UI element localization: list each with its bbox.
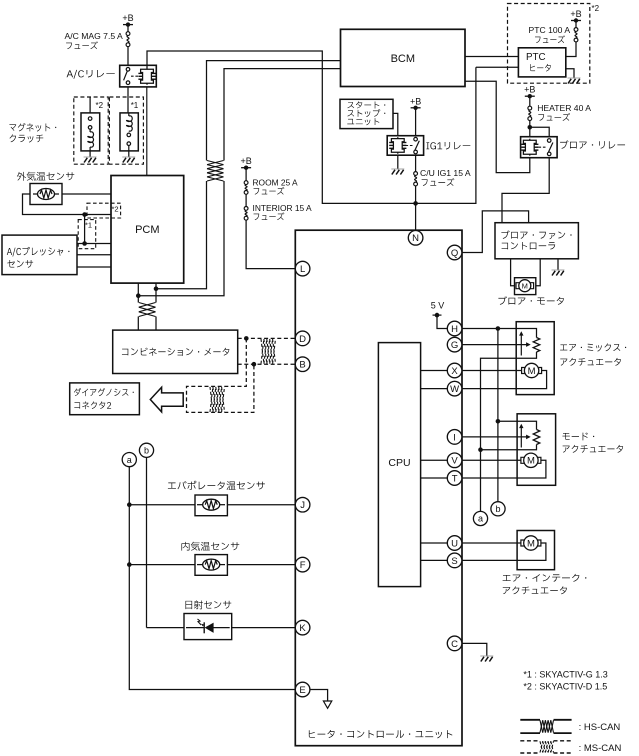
actuator air-intake box bbox=[517, 531, 554, 570]
wire bbox=[462, 459, 521, 461]
ground (signal) bbox=[323, 701, 331, 708]
node junction bbox=[244, 336, 249, 341]
svg-text:*2: *2 bbox=[592, 4, 600, 13]
wire bbox=[227, 504, 295, 506]
svg-text:5 V: 5 V bbox=[431, 301, 445, 311]
unit start-stop box bbox=[340, 99, 393, 128]
relay A/C coil bbox=[141, 69, 154, 83]
label blower relay bbox=[560, 140, 625, 149]
svg-text:PTC: PTC bbox=[526, 52, 546, 63]
label blower motor bbox=[498, 296, 564, 305]
node junction bbox=[136, 293, 141, 298]
label air intake actuator bbox=[503, 574, 587, 582]
wire bbox=[530, 127, 549, 136]
wire bbox=[137, 317, 139, 331]
resistor mode bbox=[533, 430, 540, 445]
ground bbox=[122, 156, 135, 158]
svg-text:F: F bbox=[300, 560, 306, 571]
node E bbox=[295, 682, 310, 697]
node junction bbox=[127, 562, 132, 567]
fuse ROOM 25 A bbox=[244, 181, 248, 185]
wire bbox=[566, 69, 574, 78]
svg-text:M: M bbox=[528, 366, 536, 377]
node X bbox=[447, 363, 462, 378]
svg-text:b: b bbox=[144, 446, 149, 456]
box *1 (dashed) bbox=[78, 220, 96, 249]
svg-text:ROOM 25 A: ROOM 25 A bbox=[253, 178, 299, 188]
node G bbox=[447, 337, 462, 352]
sensor outside-air-temp bbox=[30, 184, 62, 205]
node a bbox=[473, 511, 487, 525]
node N bbox=[408, 231, 423, 246]
wire bbox=[23, 194, 85, 215]
svg-text:INTERIOR 15 A: INTERIOR 15 A bbox=[253, 203, 313, 213]
svg-text:: HS-CAN: : HS-CAN bbox=[579, 722, 621, 733]
node a bbox=[122, 453, 136, 467]
wire bbox=[155, 317, 157, 331]
svg-text:: MS-CAN: : MS-CAN bbox=[579, 743, 622, 754]
legend HS-CAN bbox=[520, 719, 540, 721]
wire bbox=[465, 81, 530, 172]
wire bbox=[497, 329, 499, 502]
wire bbox=[437, 315, 447, 328]
wire bbox=[128, 151, 130, 157]
label A/C pressure sensor bbox=[7, 247, 70, 257]
wire bbox=[397, 155, 399, 169]
wire bbox=[89, 151, 91, 157]
node T bbox=[447, 471, 462, 486]
fuse A/C MAG 7.5 A bbox=[126, 32, 130, 36]
wire bbox=[129, 467, 295, 690]
svg-text:BCM: BCM bbox=[391, 53, 415, 65]
wire bbox=[481, 445, 537, 450]
svg-text:J: J bbox=[300, 500, 305, 511]
node L bbox=[295, 261, 310, 276]
svg-text:V: V bbox=[451, 456, 458, 467]
node I bbox=[447, 430, 462, 445]
wire bbox=[147, 51, 476, 203]
relay blower box bbox=[521, 137, 558, 158]
node U bbox=[447, 536, 462, 551]
node junction bbox=[496, 326, 501, 331]
node Q bbox=[447, 245, 462, 260]
svg-text:C/U IG1 15 A: C/U IG1 15 A bbox=[420, 168, 471, 178]
node junction bbox=[82, 212, 87, 217]
svg-text:T: T bbox=[452, 473, 458, 484]
svg-text:M: M bbox=[522, 281, 528, 290]
node W bbox=[447, 381, 462, 396]
sensor sun (photodiode) bbox=[184, 614, 232, 640]
wire bbox=[310, 690, 328, 702]
motor mode bbox=[524, 453, 538, 467]
heater PTC box bbox=[518, 48, 565, 77]
svg-text:PTC 100 A: PTC 100 A bbox=[529, 25, 571, 35]
meter combination box bbox=[113, 330, 238, 373]
wire bbox=[462, 643, 487, 656]
wire bbox=[155, 289, 157, 303]
svg-text:U: U bbox=[451, 538, 458, 549]
wiper air-mix bbox=[520, 334, 522, 356]
wire bbox=[557, 259, 559, 270]
wire bbox=[462, 328, 516, 330]
node F bbox=[295, 557, 310, 572]
svg-text:b: b bbox=[495, 504, 500, 514]
wire bbox=[127, 47, 129, 66]
svg-text:a: a bbox=[127, 455, 132, 465]
relay A/C switch bbox=[126, 68, 130, 72]
wire bbox=[529, 96, 531, 106]
wire bbox=[462, 344, 527, 346]
wire bbox=[77, 266, 111, 268]
svg-text:+B: +B bbox=[570, 9, 581, 19]
svg-text:+B: +B bbox=[524, 85, 535, 95]
relay IG1 box bbox=[387, 136, 423, 156]
ground bbox=[480, 655, 493, 657]
relay blower switch bbox=[547, 139, 551, 143]
wire bbox=[421, 388, 448, 390]
wire bbox=[156, 181, 207, 289]
wire (dashed) bbox=[187, 338, 254, 412]
node H bbox=[447, 321, 462, 336]
wire bbox=[415, 186, 417, 230]
node junction bbox=[252, 362, 257, 367]
wire bbox=[536, 259, 540, 286]
wire bbox=[146, 457, 148, 627]
relay IG1 switch bbox=[414, 137, 418, 141]
wire bbox=[529, 121, 531, 137]
motor blower bbox=[515, 278, 536, 295]
relay IG1 coil bbox=[391, 139, 404, 153]
arrow diagnosis bbox=[150, 387, 183, 412]
node junction bbox=[82, 241, 87, 246]
wire bbox=[129, 504, 195, 506]
wire bbox=[462, 543, 546, 560]
sensor evaporator-temp bbox=[195, 495, 227, 516]
svg-text:E: E bbox=[299, 685, 305, 696]
node C bbox=[447, 636, 462, 651]
node junction bbox=[413, 201, 418, 206]
wire bbox=[84, 215, 86, 244]
svg-text:+B: +B bbox=[410, 96, 421, 106]
wire bbox=[77, 254, 111, 256]
connector diagnosis box bbox=[70, 383, 140, 415]
wire bbox=[465, 56, 518, 58]
svg-text:H: H bbox=[451, 324, 458, 335]
svg-text:A/C MAG 7.5 A: A/C MAG 7.5 A bbox=[65, 31, 124, 41]
svg-text:*2: *2 bbox=[96, 101, 104, 110]
node b bbox=[491, 502, 505, 516]
label outside air temp sensor bbox=[17, 172, 74, 181]
wire bbox=[85, 214, 111, 216]
resistor air-mix bbox=[533, 338, 540, 353]
wire bbox=[462, 460, 546, 478]
wire bbox=[421, 459, 448, 461]
wire bbox=[227, 564, 295, 566]
svg-text:M: M bbox=[527, 538, 535, 549]
wire bbox=[415, 108, 417, 136]
box *2 (dashed) bbox=[87, 203, 121, 218]
wire bbox=[155, 283, 157, 289]
wire bbox=[516, 329, 536, 338]
svg-text:S: S bbox=[451, 556, 457, 567]
wire (dashed) bbox=[238, 337, 296, 339]
wire bbox=[245, 194, 247, 206]
box PTC *2 (dashed) bbox=[508, 4, 590, 84]
label IG1 relay bbox=[426, 142, 470, 150]
wire bbox=[393, 113, 398, 135]
wire bbox=[415, 155, 417, 171]
label A/C relay bbox=[67, 70, 115, 79]
svg-text:Q: Q bbox=[451, 248, 458, 259]
node junction bbox=[528, 125, 533, 130]
wire bbox=[245, 168, 247, 181]
svg-text:D: D bbox=[299, 334, 306, 345]
wiper mode bbox=[520, 427, 522, 448]
clutch coil *1 bbox=[120, 113, 138, 151]
node V bbox=[447, 453, 462, 468]
label heater control unit bbox=[309, 730, 453, 738]
ground bbox=[391, 168, 404, 170]
twisted pair MS-CAN (dashed) bbox=[210, 387, 213, 412]
label evaporator temp sensor bbox=[168, 481, 265, 490]
wire bbox=[138, 181, 224, 296]
clutch coil *2 bbox=[81, 113, 100, 151]
twisted pair MS-CAN (dashed) bbox=[261, 339, 264, 364]
svg-text:*2: *2 bbox=[112, 205, 119, 214]
wire bbox=[511, 259, 515, 286]
twisted pair HS-CAN bbox=[207, 161, 224, 165]
node B bbox=[295, 357, 310, 372]
wire bbox=[462, 542, 521, 544]
node junction bbox=[478, 447, 483, 452]
wire bbox=[462, 371, 547, 389]
controller blower-fan box bbox=[495, 223, 578, 259]
label mode actuator bbox=[562, 432, 594, 440]
wire bbox=[502, 158, 549, 223]
sensor cabin-temp bbox=[195, 555, 227, 576]
node b bbox=[139, 443, 153, 457]
node J bbox=[295, 497, 310, 512]
wire (dashed) bbox=[238, 363, 296, 365]
wire bbox=[421, 477, 448, 479]
wire bbox=[462, 211, 529, 253]
box magnet-clutch *2 (dashed) bbox=[74, 97, 108, 164]
wire bbox=[462, 436, 527, 438]
svg-text:*1: *1 bbox=[131, 101, 139, 110]
wire bbox=[137, 296, 139, 303]
node S bbox=[447, 553, 462, 568]
cpu CPU box bbox=[378, 343, 420, 587]
wire bbox=[462, 370, 522, 372]
label magnet clutch bbox=[9, 123, 56, 132]
svg-text:W: W bbox=[450, 384, 459, 395]
svg-text:I: I bbox=[453, 432, 456, 443]
node D bbox=[295, 331, 310, 346]
node junction bbox=[127, 502, 132, 507]
svg-text:N: N bbox=[412, 233, 419, 244]
svg-text:L: L bbox=[300, 264, 305, 275]
node junction bbox=[496, 419, 501, 424]
svg-text:CPU: CPU bbox=[388, 457, 410, 469]
wire bbox=[62, 193, 111, 195]
box magnet-clutch *1 (dashed) bbox=[109, 97, 143, 164]
relay blower coil bbox=[523, 140, 536, 154]
svg-text:G: G bbox=[451, 340, 458, 351]
legend MS-CAN bbox=[520, 740, 540, 742]
ground bbox=[552, 269, 565, 271]
relay A/C box bbox=[120, 65, 157, 87]
svg-text:B: B bbox=[299, 360, 305, 371]
ecu PCM bbox=[111, 176, 184, 284]
wire bbox=[421, 370, 448, 372]
wire bbox=[421, 542, 448, 544]
label air mix actuator bbox=[560, 343, 626, 351]
svg-text:M: M bbox=[527, 456, 535, 467]
wire bbox=[566, 42, 576, 57]
wire bbox=[498, 421, 537, 429]
motor air-mix bbox=[524, 363, 538, 377]
svg-text:a: a bbox=[478, 514, 483, 524]
wire bbox=[137, 283, 139, 296]
unit heater-control box bbox=[295, 230, 462, 746]
label sun sensor bbox=[185, 600, 231, 609]
wire bbox=[476, 66, 519, 68]
fuse INTERIOR 15 A bbox=[244, 207, 248, 211]
actuator air-mix box bbox=[516, 322, 554, 395]
wire bbox=[246, 220, 296, 268]
svg-text:+B: +B bbox=[240, 156, 251, 166]
wire bbox=[127, 25, 129, 32]
wire bbox=[77, 243, 111, 245]
fuse HEATER 40 A bbox=[528, 106, 532, 110]
wire bbox=[147, 627, 185, 629]
svg-text:X: X bbox=[451, 366, 458, 377]
svg-text:C: C bbox=[451, 639, 458, 650]
wire bbox=[224, 69, 341, 161]
actuator mode box bbox=[517, 414, 556, 486]
svg-text:HEATER 40 A: HEATER 40 A bbox=[537, 103, 591, 113]
wire bbox=[421, 559, 448, 561]
ground bbox=[568, 77, 581, 79]
fuse C/U IG1 15 A bbox=[414, 172, 418, 176]
node junction bbox=[154, 286, 159, 291]
node K bbox=[295, 620, 310, 635]
ecu BCM bbox=[341, 29, 466, 86]
svg-text:*1 : SKYACTIV-G 1.3: *1 : SKYACTIV-G 1.3 bbox=[523, 670, 607, 680]
wire bbox=[89, 97, 91, 113]
wire bbox=[207, 61, 341, 161]
svg-text:*2 : SKYACTIV-D 1.5: *2 : SKYACTIV-D 1.5 bbox=[523, 682, 607, 692]
svg-text:*1: *1 bbox=[85, 221, 92, 230]
fuse PTC 100 A bbox=[574, 28, 578, 32]
wire bbox=[516, 352, 536, 358]
wire bbox=[127, 87, 129, 113]
motor air-intake bbox=[524, 536, 538, 550]
wire bbox=[575, 21, 577, 28]
wire bbox=[146, 87, 148, 176]
svg-text:K: K bbox=[299, 623, 306, 634]
svg-text:+B: +B bbox=[122, 13, 133, 23]
wire bbox=[129, 564, 195, 566]
svg-text:PCM: PCM bbox=[135, 224, 159, 236]
sensor A/C pressure box bbox=[2, 235, 77, 275]
label cabin temp sensor bbox=[181, 542, 239, 551]
ground bbox=[84, 156, 97, 158]
wire bbox=[232, 627, 296, 629]
twisted pair HS-CAN bbox=[139, 303, 156, 308]
wire bbox=[481, 358, 517, 511]
